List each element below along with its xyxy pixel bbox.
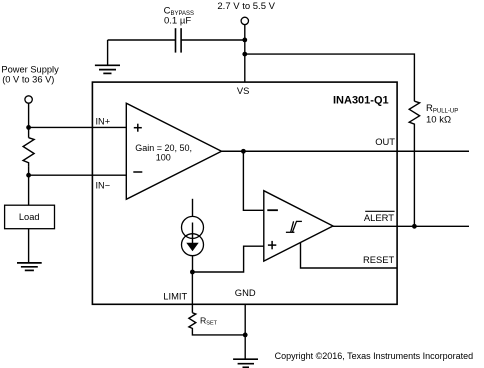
svg-text:RESET: RESET bbox=[363, 254, 395, 265]
svg-text:ALERT: ALERT bbox=[364, 212, 394, 223]
wire bbox=[181, 39, 245, 41]
load box bbox=[5, 205, 55, 229]
wire IN+ bbox=[29, 126, 127, 128]
node: junction dot bbox=[243, 333, 248, 338]
ground bbox=[95, 40, 120, 73]
capacitor C_BYPASS bbox=[164, 5, 194, 52]
wire LIMIT bbox=[191, 272, 193, 313]
node: junction dot bbox=[242, 52, 247, 57]
wire GND bbox=[244, 304, 246, 359]
svg-text:(0 V to 36 V): (0 V to 36 V) bbox=[2, 74, 54, 84]
svg-text:0.1 µF: 0.1 µF bbox=[164, 15, 191, 26]
node: junction dot bbox=[412, 224, 417, 229]
wire RESET bbox=[301, 243, 398, 268]
svg-text:IN−: IN− bbox=[96, 181, 111, 191]
resistor R_shunt bbox=[23, 138, 34, 166]
svg-text:10 kΩ: 10 kΩ bbox=[426, 114, 451, 125]
svg-text:Load: Load bbox=[19, 212, 40, 222]
svg-text:2.7 V to 5.5 V: 2.7 V to 5.5 V bbox=[217, 1, 275, 12]
svg-text:IN+: IN+ bbox=[96, 116, 111, 126]
node: junction dot bbox=[26, 173, 31, 178]
power supply terminal bbox=[1, 64, 59, 103]
resistor R_SET bbox=[189, 313, 218, 330]
svg-text:OUT: OUT bbox=[375, 136, 395, 147]
resistor R_PULL-UP bbox=[409, 101, 458, 127]
wire bbox=[28, 166, 30, 205]
svg-text:VS: VS bbox=[237, 85, 250, 96]
pin label ALERT (overlined) bbox=[364, 211, 395, 223]
svg-text:Copyright ©2016, Texas Instrum: Copyright ©2016, Texas Instruments Incor… bbox=[275, 351, 474, 361]
wire VS bbox=[244, 25, 246, 83]
IC box INA301-Q1 bbox=[92, 82, 397, 304]
wire ALERT bbox=[333, 225, 469, 227]
op-amp U1 gain amp bbox=[126, 103, 221, 199]
svg-text:Power Supply: Power Supply bbox=[1, 64, 59, 74]
node: junction dot bbox=[242, 38, 247, 43]
wire to comparator non-inverting input bbox=[192, 246, 263, 272]
svg-text:GND: GND bbox=[235, 287, 256, 298]
svg-text:Gain = 20, 50,: Gain = 20, 50, bbox=[135, 143, 192, 153]
svg-text:RSET: RSET bbox=[200, 315, 218, 326]
wire bbox=[28, 103, 30, 138]
svg-text:100: 100 bbox=[156, 153, 171, 163]
svg-text:RPULL-UP: RPULL-UP bbox=[426, 103, 458, 115]
wire bbox=[108, 39, 176, 41]
wire OUT bbox=[222, 150, 470, 152]
wire bbox=[28, 229, 30, 263]
wire bbox=[192, 330, 245, 335]
wire IN- bbox=[29, 174, 127, 176]
ground bbox=[17, 263, 42, 271]
wire bbox=[413, 127, 415, 226]
svg-text:INA301-Q1: INA301-Q1 bbox=[333, 94, 389, 106]
node: junction dot bbox=[190, 270, 195, 275]
node: junction dot bbox=[241, 149, 246, 154]
wire to comparator inverting input bbox=[243, 151, 263, 210]
comparator U2 bbox=[264, 191, 333, 261]
node: junction dot bbox=[26, 125, 31, 130]
supply terminal 2.7V bbox=[217, 1, 275, 24]
ground bbox=[233, 359, 258, 367]
svg-text:LIMIT: LIMIT bbox=[163, 291, 187, 302]
wire bbox=[245, 54, 415, 101]
hysteresis glyph bbox=[286, 221, 302, 232]
current source I_limit bbox=[182, 199, 204, 272]
